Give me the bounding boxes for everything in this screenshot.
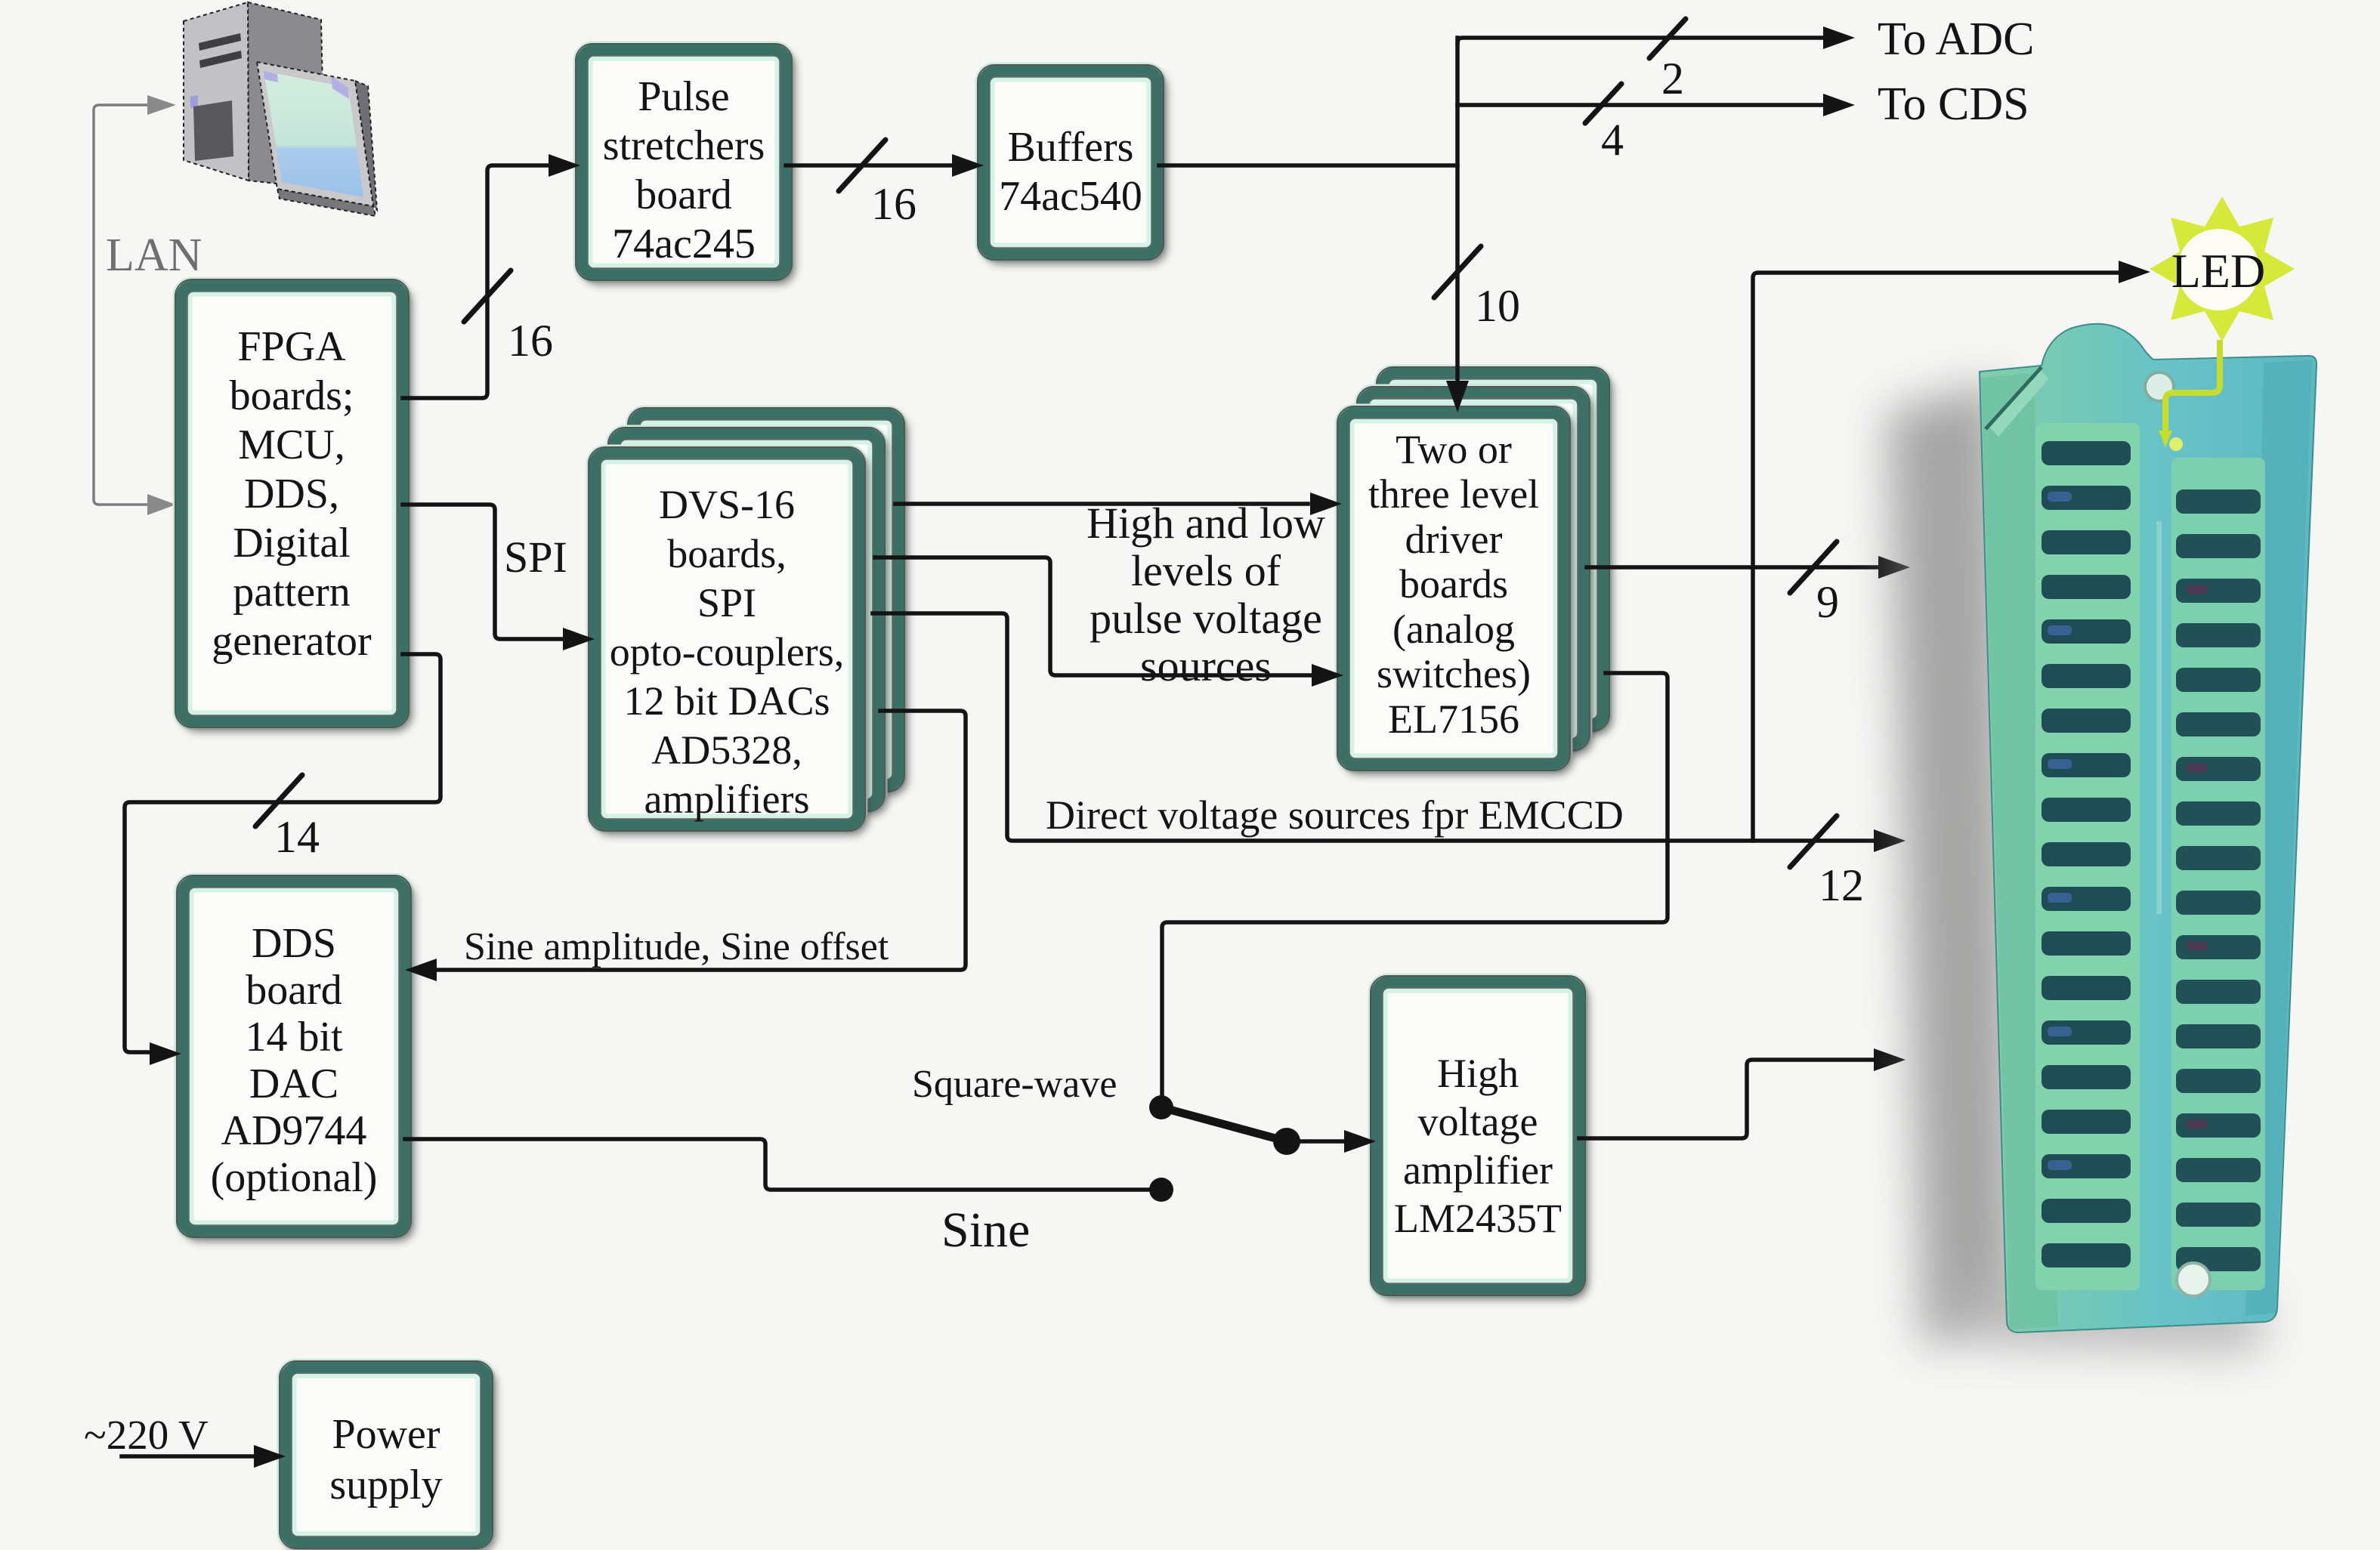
slash bus 16 a (464, 270, 511, 322)
wire LAN (94, 105, 148, 505)
DVS-16 stack board 2 (608, 428, 885, 811)
arrowhead sine amplitude into DDS (405, 959, 437, 981)
wire driver to socket bus 9 (1587, 565, 1880, 570)
svg-text:9: 9 (1816, 577, 1839, 627)
text power supply (329, 1411, 442, 1508)
slash bus 4 (1585, 84, 1621, 123)
svg-text:~220 V: ~220 V (84, 1412, 209, 1458)
block DVS-16 boards front (589, 447, 865, 831)
svg-text:amplifiers: amplifiers (644, 777, 810, 822)
svg-text:boards: boards (1399, 561, 1508, 607)
text Pulse stretchers board (603, 73, 765, 267)
LED star icon (2150, 196, 2295, 341)
svg-text:AD9744: AD9744 (221, 1107, 367, 1154)
svg-text:LED: LED (2171, 244, 2265, 298)
wire DVS to driver top (895, 502, 1308, 506)
svg-text:DVS-16: DVS-16 (659, 482, 795, 527)
svg-text:generator: generator (212, 618, 372, 665)
svg-text:Digital: Digital (233, 520, 351, 567)
svg-text:LAN: LAN (106, 230, 202, 281)
block high voltage amplifier (1371, 976, 1585, 1295)
node switch common (1273, 1128, 1300, 1155)
svg-text:SPI: SPI (504, 533, 567, 582)
socket screw hole top (2145, 372, 2174, 401)
svg-text:16: 16 (508, 316, 553, 366)
svg-text:boards;: boards; (230, 372, 354, 419)
driver stack board 3 (1377, 367, 1609, 731)
svg-text:Pulse: Pulse (638, 73, 729, 120)
arrowhead to ADC (1823, 26, 1855, 49)
node square-wave pole (1149, 1095, 1173, 1119)
text driver boards (1368, 427, 1539, 742)
arrowhead into pulse stretchers (549, 154, 580, 177)
svg-text:SPI: SPI (697, 580, 756, 625)
slash bus 10 (1434, 246, 1481, 298)
slash bus 9 (1790, 542, 1837, 593)
svg-text:board: board (246, 967, 342, 1014)
wire junction vertical (1455, 38, 1460, 381)
label high and low levels of pulse voltage sources (1086, 499, 1325, 690)
wire pulse stretchers to buffers (786, 163, 954, 168)
node sine pole (1149, 1178, 1173, 1202)
text DDS board (211, 920, 378, 1201)
svg-text:10: 10 (1475, 281, 1520, 331)
monitor (257, 62, 377, 216)
svg-text:EL7156: EL7156 (1388, 696, 1519, 742)
svg-text:pattern: pattern (233, 569, 350, 616)
arrowhead amplifier into socket (1874, 1048, 1906, 1071)
svg-text:(optional): (optional) (211, 1154, 378, 1201)
block DDS board (177, 875, 411, 1237)
svg-text:4: 4 (1601, 115, 1624, 165)
svg-text:DDS,: DDS, (244, 471, 339, 517)
svg-text:14: 14 (274, 812, 320, 862)
block two or three level driver boards front (1337, 406, 1570, 770)
socket pin slots (2042, 441, 2261, 1271)
svg-text:High and low: High and low (1086, 499, 1325, 548)
arrowhead bus 9 into socket (1878, 556, 1910, 579)
ZIF socket photo (1887, 324, 2317, 1352)
DVS-16 stack board 3 (628, 408, 904, 792)
svg-text:74ac540: 74ac540 (999, 173, 1142, 220)
slash bus 12 (1790, 816, 1837, 867)
svg-text:DAC: DAC (249, 1061, 338, 1107)
svg-text:74ac245: 74ac245 (612, 221, 756, 267)
svg-text:LM2435T: LM2435T (1394, 1196, 1562, 1241)
svg-text:board: board (635, 171, 732, 218)
arrowhead into amplifier (1344, 1130, 1376, 1153)
wire to ADC (1457, 38, 1823, 43)
svg-text:three level: three level (1368, 471, 1539, 517)
wire DDS sine out (405, 1139, 1156, 1190)
svg-text:12 bit DACs: 12 bit DACs (623, 678, 830, 724)
LED wire (2165, 340, 2220, 431)
arrowhead into LED (2119, 261, 2150, 283)
svg-text:(analog: (analog (1392, 607, 1515, 652)
slash bus 16 b (839, 140, 886, 191)
svg-text:2: 2 (1661, 54, 1684, 103)
text high voltage amplifier (1394, 1051, 1562, 1241)
wire switch to amplifier (1287, 1139, 1344, 1144)
svg-text:opto-couplers,: opto-couplers, (610, 629, 844, 675)
svg-text:Direct voltage sources fpr EMC: Direct voltage sources fpr EMCCD (1046, 792, 1624, 838)
arrowhead into power supply (254, 1445, 286, 1468)
wire DVS to driver lower (875, 557, 1312, 675)
arrowhead LAN to computer (147, 95, 176, 115)
svg-text:Sine amplitude, Sine offset: Sine amplitude, Sine offset (464, 925, 889, 968)
computer workstation icon (184, 2, 325, 189)
wire driver to switch (1162, 673, 1668, 1097)
wire direct voltage sources bus 12 (873, 613, 1874, 841)
svg-text:levels of: levels of (1131, 546, 1281, 595)
wire DVS sine amplitude return (435, 711, 966, 970)
text FPGA boards (212, 323, 372, 665)
svg-text:supply: supply (329, 1462, 442, 1508)
slash bus 14 (255, 775, 302, 826)
wire LED feed (1753, 273, 2120, 841)
socket screw hole bottom (2177, 1263, 2210, 1296)
svg-text:driver: driver (1405, 517, 1503, 562)
block FPGA boards (175, 279, 409, 727)
arrowhead SPI into DVS-16 (563, 628, 595, 650)
text Buffers (999, 124, 1142, 220)
svg-text:sources: sources (1140, 641, 1272, 690)
svg-text:Two or: Two or (1396, 427, 1512, 472)
arrowhead into driver upper (1310, 492, 1342, 515)
arrowhead bus 12 into socket (1874, 829, 1906, 852)
slash bus 2 (1649, 19, 1686, 58)
svg-text:14 bit: 14 bit (245, 1014, 343, 1061)
driver stack board 2 (1357, 387, 1590, 751)
wire FPGA to DVS-16 SPI (403, 505, 563, 639)
svg-text:AD5328,: AD5328, (651, 727, 802, 773)
wire 220V to power supply (122, 1454, 255, 1459)
wire FPGA to DDS bus 14 (125, 654, 440, 1052)
arrowhead into driver lower (1312, 664, 1343, 687)
arrowhead into DDS (150, 1042, 181, 1065)
svg-text:MCU,: MCU, (238, 421, 345, 468)
svg-text:To CDS: To CDS (1878, 79, 2029, 130)
arrowhead to CDS (1823, 94, 1855, 116)
svg-text:boards,: boards, (667, 531, 786, 576)
block Pulse stretchers board (576, 44, 792, 280)
block Buffers 74ac540 (978, 65, 1164, 260)
svg-text:pulse voltage: pulse voltage (1090, 594, 1322, 643)
text DVS-16 boards (610, 482, 844, 822)
wire buffers to junction (1159, 163, 1457, 168)
svg-text:FPGA: FPGA (237, 323, 346, 370)
wire amplifier to socket (1579, 1060, 1874, 1138)
svg-text:Buffers: Buffers (1008, 124, 1134, 171)
svg-text:To ADC: To ADC (1878, 14, 2035, 65)
svg-text:amplifier: amplifier (1403, 1147, 1553, 1193)
svg-text:Sine: Sine (941, 1203, 1030, 1258)
svg-text:16: 16 (871, 179, 916, 229)
svg-text:Power: Power (332, 1411, 440, 1458)
svg-text:DDS: DDS (252, 920, 336, 967)
svg-text:stretchers: stretchers (603, 122, 765, 169)
arrowhead into buffers (952, 154, 984, 177)
svg-text:voltage: voltage (1418, 1099, 1538, 1144)
svg-text:High: High (1437, 1051, 1519, 1096)
wire FPGA to pulse stretchers (403, 165, 550, 398)
svg-text:12: 12 (1819, 860, 1864, 910)
svg-text:switches): switches) (1377, 651, 1531, 696)
block power supply (280, 1361, 493, 1548)
wire to CDS (1457, 103, 1823, 107)
arrowhead LAN to FPGA (147, 494, 176, 515)
arrowhead into driver stack top (1446, 381, 1469, 412)
svg-text:Square-wave: Square-wave (912, 1063, 1117, 1106)
